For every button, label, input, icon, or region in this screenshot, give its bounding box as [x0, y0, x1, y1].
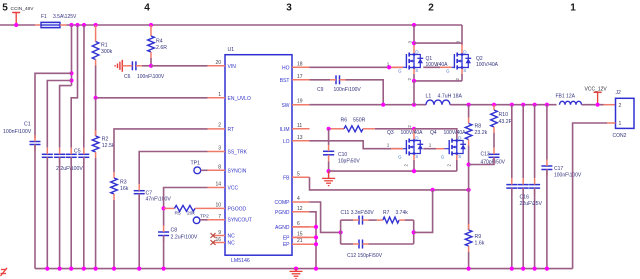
wire VCC to C8 — [164, 188, 208, 226]
svg-text:G: G — [446, 69, 450, 74]
wire COMP to network — [310, 202, 341, 232]
svg-text:1.6k: 1.6k — [475, 241, 485, 247]
svg-text:R4: R4 — [156, 39, 163, 45]
svg-text:S: S — [463, 68, 466, 73]
wire comp to FB — [414, 190, 433, 233]
svg-text:COMP: COMP — [275, 200, 291, 206]
wire RT to R3 — [114, 129, 208, 172]
node SW sources — [412, 79, 416, 83]
wire Q1 drain to top rail — [413, 25, 415, 45]
svg-text:SYNCIN: SYNCIN — [228, 168, 247, 174]
capacitor C13 470pF\50V — [481, 133, 506, 165]
junction dots on top rail — [14, 23, 18, 27]
svg-text:S: S — [415, 68, 418, 73]
node comp right — [412, 230, 416, 234]
power flag VCC_12V — [585, 86, 608, 104]
svg-text:AGND: AGND — [275, 225, 290, 231]
capacitor C1 100nF\100V — [3, 122, 41, 152]
svg-text:R8: R8 — [475, 124, 482, 130]
svg-text:RT: RT — [228, 127, 235, 133]
svg-text:C8: C8 — [171, 228, 178, 234]
svg-text:20: 20 — [215, 60, 221, 66]
svg-text:22uF\25V: 22uF\25V — [520, 201, 543, 207]
svg-text:EP: EP — [283, 242, 290, 248]
svg-text:100V/40A: 100V/40A — [426, 62, 449, 68]
capacitor C8 2.2uF\100V — [158, 226, 198, 243]
svg-text:R2: R2 — [102, 137, 109, 143]
svg-text:C10: C10 — [338, 152, 347, 158]
svg-text:23.2k: 23.2k — [475, 130, 488, 136]
svg-text:C13: C13 — [481, 152, 490, 158]
svg-text:TP2: TP2 — [200, 214, 209, 220]
svg-text:FB1 12A: FB1 12A — [556, 94, 576, 100]
svg-text:Q4: Q4 — [430, 130, 437, 136]
svg-text:EP: EP — [283, 235, 290, 241]
svg-text:4: 4 — [297, 196, 300, 202]
svg-text:VCC_12V: VCC_12V — [585, 86, 608, 92]
svg-text:R3: R3 — [120, 180, 127, 186]
wire C7 to ground bus — [138, 194, 140, 268]
svg-text:100nF\100V: 100nF\100V — [554, 173, 582, 179]
svg-text:G: G — [441, 155, 445, 160]
svg-text:EN_UVLO: EN_UVLO — [228, 96, 251, 102]
svg-text:2: 2 — [619, 103, 622, 109]
ground for C6 — [121, 60, 123, 72]
svg-text:C11 3.3nF\50V: C11 3.3nF\50V — [341, 210, 375, 216]
svg-text:1: 1 — [570, 3, 576, 14]
svg-text:100V/40A: 100V/40A — [444, 130, 467, 136]
no-connect pin 9 — [211, 233, 226, 238]
svg-text:5: 5 — [2, 3, 8, 14]
wire ground bus — [35, 268, 573, 270]
node EP 15 — [292, 236, 316, 238]
wire feeder A jog to C5 cap b — [60, 86, 72, 148]
wire EN_UVLO to divider — [96, 97, 208, 99]
ground for C10 and power stage — [322, 171, 335, 186]
ferrite bead FB1 12A — [556, 94, 582, 105]
node C10 ground — [327, 169, 331, 173]
svg-text:R7: R7 — [383, 210, 390, 216]
wire C13 to R8 node — [469, 158, 494, 165]
svg-text:19: 19 — [297, 99, 303, 105]
svg-text:C16: C16 — [520, 195, 530, 201]
wire C6 to VIN node — [142, 65, 151, 67]
ground symbol main — [290, 269, 303, 279]
svg-text:100V/40A: 100V/40A — [401, 130, 424, 136]
svg-text:4.7uH 18A: 4.7uH 18A — [438, 94, 463, 100]
svg-text:10pF\50V: 10pF\50V — [338, 159, 360, 165]
svg-text:CCIN_48V: CCIN_48V — [11, 6, 35, 12]
svg-text:C7: C7 — [146, 191, 153, 197]
node SW L1 — [412, 103, 416, 107]
wire BST to SW — [346, 80, 384, 105]
resistor R9 1.6k — [465, 190, 484, 269]
resistor R4 2.6R — [148, 25, 168, 66]
svg-text:12.5k: 12.5k — [102, 143, 115, 149]
svg-text:21: 21 — [297, 238, 303, 244]
wire LO to Q3 gate — [310, 141, 404, 149]
wire R2 to ground bus — [95, 158, 97, 269]
no-connect pin 16 — [211, 240, 226, 245]
node BST cap junction — [381, 103, 385, 107]
svg-text:17: 17 — [297, 74, 303, 80]
wire Q2 drain from top rail — [461, 25, 463, 45]
svg-text:C5: C5 — [74, 148, 81, 154]
svg-text:R5: R5 — [175, 211, 181, 217]
wire top VIN rail — [0, 24, 35, 26]
svg-text:J2: J2 — [616, 90, 622, 96]
svg-text:FB: FB — [283, 175, 290, 181]
wire sources to SW rail — [413, 81, 415, 105]
resistor R1 300k — [92, 25, 112, 98]
test point TP2 — [193, 214, 209, 224]
resistor R6 550R — [329, 118, 375, 132]
capacitor C17 100nF\100V — [541, 105, 582, 269]
wire ILIM to SW node — [375, 128, 414, 130]
wire CON2 pin1 to ground bus — [573, 123, 616, 269]
svg-text:15: 15 — [297, 231, 303, 237]
connector J2 CON2 — [613, 90, 635, 139]
svg-text:NC: NC — [228, 241, 236, 247]
test point TP1 — [191, 161, 201, 174]
pin stubs U1 left — [208, 66, 226, 220]
wire drain tie — [414, 42, 462, 44]
wire TP2 to SYNCOUT — [200, 219, 208, 221]
revision mark bottom left — [1, 268, 8, 276]
svg-text:6: 6 — [297, 221, 300, 227]
svg-text:LM5146: LM5146 — [231, 258, 250, 264]
wire VOUT rail — [450, 104, 557, 106]
svg-text:100nF\100V: 100nF\100V — [137, 74, 165, 80]
svg-text:3: 3 — [286, 3, 292, 14]
wire Q1 Q2 source tie — [414, 80, 462, 82]
node VCC PGOOD pullup — [162, 206, 166, 210]
node ILIM SW — [412, 127, 416, 131]
svg-text:PGOOD: PGOOD — [228, 206, 247, 212]
power flag VCCIN_48V — [11, 6, 35, 25]
svg-text:G: G — [398, 69, 402, 74]
IC U1 LM5146 buck controller — [225, 47, 292, 264]
svg-text:ILIM: ILIM — [280, 127, 290, 133]
svg-text:C1: C1 — [24, 122, 31, 128]
node R1 R2 EN_UVLO — [94, 96, 98, 100]
svg-text:U1: U1 — [228, 47, 235, 53]
fuse F1 3.5A\125V — [35, 14, 77, 28]
svg-text:NC: NC — [228, 234, 236, 240]
node VIN filter — [149, 64, 153, 68]
svg-text:1: 1 — [387, 143, 390, 148]
transistor Q1 100V/40A — [398, 40, 448, 81]
capacitor C9 100nF\100V bootstrap — [310, 75, 362, 93]
resistor R10 43.2R — [491, 105, 513, 133]
svg-text:F1: F1 — [41, 14, 47, 20]
node feeder A to C5a — [69, 78, 73, 82]
wires C5 bank to ground bus — [47, 158, 84, 269]
wire C1 to ground bus — [34, 145, 36, 269]
node VCC_12V — [596, 103, 600, 107]
svg-text:300k: 300k — [101, 49, 113, 55]
wire PGND AGND EP to ground bus — [310, 212, 317, 269]
junction dots on ground bus — [45, 267, 549, 271]
node R8 C13 — [467, 162, 471, 166]
wire SS_TRK to C7 — [139, 152, 207, 185]
capacitor C11 3.3nF\50V — [341, 210, 375, 225]
capacitor C12 150pF\50V — [341, 240, 414, 260]
svg-text:5: 5 — [297, 171, 300, 177]
pin numbers U1 left — [215, 60, 221, 243]
svg-text:2.6R: 2.6R — [156, 45, 167, 51]
wire FB1 to CON2 — [582, 104, 604, 106]
svg-text:G: G — [398, 155, 402, 160]
pin stubs U1 right — [292, 67, 310, 244]
svg-text:7: 7 — [218, 214, 221, 220]
node Q1 Q2 drain tie — [412, 41, 416, 45]
svg-text:47nF\100V: 47nF\100V — [146, 197, 172, 203]
node FB divider — [467, 188, 471, 192]
wire FB net — [310, 177, 469, 190]
svg-text:100nF\100V: 100nF\100V — [334, 87, 362, 93]
wire to C5 cap a — [47, 81, 71, 148]
wire SW rail — [310, 104, 427, 106]
node feeder A to C1 — [69, 71, 73, 75]
wire top VIN rail after fuse — [67, 24, 463, 26]
capacitor C10 10pF\50V — [323, 129, 360, 171]
svg-text:L1: L1 — [426, 94, 432, 100]
resistor R8 23.2k — [465, 105, 487, 190]
node Q3 source — [412, 169, 416, 173]
svg-text:100nF\100V: 100nF\100V — [3, 129, 32, 135]
wire TP1 to SYNCIN — [201, 169, 208, 171]
nodes on VOUT rail — [467, 103, 471, 107]
wire Q3 Q4 source tie to ground — [329, 170, 457, 172]
svg-text:R10: R10 — [499, 112, 509, 118]
svg-text:3.74k: 3.74k — [396, 210, 409, 216]
svg-text:R1: R1 — [101, 43, 108, 49]
svg-text:HO: HO — [282, 65, 290, 71]
svg-text:CON2: CON2 — [613, 133, 627, 139]
resistor R3 16k — [111, 172, 129, 200]
svg-text:VIN: VIN — [228, 64, 237, 70]
wire to C1 — [35, 73, 72, 138]
svg-text:R6: R6 — [341, 118, 348, 124]
svg-text:BST: BST — [280, 78, 290, 84]
svg-text:10: 10 — [215, 202, 221, 208]
svg-text:R9: R9 — [475, 234, 482, 240]
svg-text:1: 1 — [387, 61, 390, 66]
wire C8 to ground bus — [163, 236, 165, 269]
wire Q2 gate feed — [423, 66, 440, 68]
svg-text:2.2uF\100V: 2.2uF\100V — [171, 235, 198, 241]
svg-text:1: 1 — [429, 143, 432, 148]
pin numbers U1 right — [297, 61, 303, 244]
svg-text:12: 12 — [297, 206, 303, 212]
svg-text:C17: C17 — [554, 166, 563, 172]
wire R3 to ground bus — [113, 200, 115, 269]
capacitor C6 100nF\100V — [122, 61, 165, 80]
wire comp left riser — [340, 220, 342, 244]
node ILIM C10 — [327, 127, 331, 131]
svg-text:14: 14 — [215, 182, 221, 188]
svg-text:C9: C9 — [317, 87, 324, 93]
svg-text:1: 1 — [619, 121, 622, 127]
svg-text:SS_TRK: SS_TRK — [228, 150, 248, 156]
svg-text:C6: C6 — [124, 74, 131, 80]
wire input cap feeder B to C5 cap c — [71, 25, 77, 148]
wire VIN to pin 20 — [151, 65, 208, 67]
svg-text:18: 18 — [297, 61, 303, 67]
svg-text:20k: 20k — [187, 211, 195, 217]
svg-text:11: 11 — [297, 123, 302, 129]
svg-text:8: 8 — [218, 164, 221, 170]
svg-text:SYNCOUT: SYNCOUT — [228, 218, 252, 224]
svg-text:13: 13 — [297, 135, 303, 141]
wire Q4 gate feed — [423, 148, 436, 150]
svg-text:LO: LO — [283, 139, 290, 145]
resistor R5 20k — [164, 205, 208, 216]
transistor Q4 100V/40A — [430, 130, 466, 171]
node comp left — [339, 230, 343, 234]
svg-text:S: S — [415, 154, 418, 159]
transistor Q2 100V/40A — [446, 40, 499, 81]
svg-text:16k: 16k — [120, 186, 129, 192]
node HO gate — [387, 65, 391, 69]
svg-text:S: S — [458, 154, 461, 159]
wire Q4 drain tie — [414, 129, 457, 142]
wire HO to Q1 gate — [310, 66, 404, 68]
node FB comp tap — [431, 188, 435, 192]
wire input cap feeder A — [71, 25, 73, 86]
svg-text:SW: SW — [281, 103, 289, 109]
resistor R2 12.5k — [92, 98, 115, 158]
svg-text:550R: 550R — [353, 118, 366, 124]
svg-text:TP1: TP1 — [191, 161, 201, 167]
svg-text:C12 150pF\50V: C12 150pF\50V — [347, 253, 383, 259]
svg-text:43.2R: 43.2R — [499, 119, 513, 125]
svg-text:2: 2 — [218, 122, 221, 128]
node AGND — [292, 226, 316, 228]
capacitor C5 2.2uF\100V bank — [42, 148, 90, 172]
svg-text:100V/40A: 100V/40A — [476, 62, 499, 68]
svg-text:PGND: PGND — [275, 210, 290, 216]
svg-text:VCC: VCC — [228, 186, 239, 192]
capacitor C16 22uF\25V bank — [506, 105, 542, 269]
wire input cap feeder C to C5 cap d — [83, 25, 85, 148]
svg-text:2: 2 — [428, 3, 434, 14]
svg-text:4: 4 — [144, 3, 150, 14]
wire comp right riser — [413, 220, 415, 244]
svg-text:3.5A\125V: 3.5A\125V — [53, 14, 77, 20]
transistor Q3 100V/40A — [387, 125, 423, 171]
capacitor C7 47nF\100V — [134, 184, 172, 203]
svg-text:1: 1 — [218, 92, 221, 98]
svg-text:3: 3 — [218, 145, 221, 151]
resistor R7 3.74k — [369, 210, 414, 223]
svg-text:Q3: Q3 — [387, 130, 394, 136]
node EP 21 — [292, 243, 316, 245]
inductor L1 4.7uH 18A — [426, 94, 463, 105]
